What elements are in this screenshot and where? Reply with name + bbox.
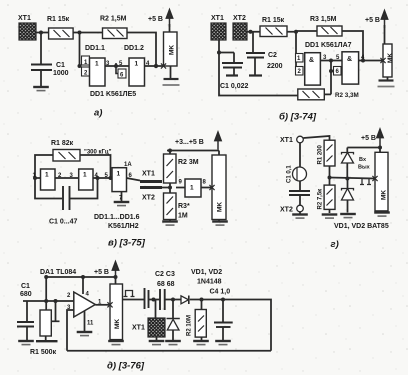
svg-text:R2 3,3M: R2 3,3M xyxy=(335,92,359,99)
svg-text:д) [3-76]: д) [3-76] xyxy=(107,361,145,372)
svg-text:VD1, VD2: VD1, VD2 xyxy=(191,269,222,276)
svg-text:XT1: XT1 xyxy=(211,15,224,22)
svg-text:2200: 2200 xyxy=(267,63,283,70)
svg-text:R1 15к: R1 15к xyxy=(47,16,70,23)
svg-text:1: 1 xyxy=(83,172,87,179)
svg-text:&: & xyxy=(347,56,352,63)
svg-text:DD1 K561ЛА7: DD1 K561ЛА7 xyxy=(305,42,352,49)
svg-text:XT1: XT1 xyxy=(132,325,145,332)
svg-text:+5 B: +5 B xyxy=(361,135,376,142)
svg-text:C1: C1 xyxy=(21,283,30,290)
svg-text:1000: 1000 xyxy=(53,70,69,77)
svg-text:68 68: 68 68 xyxy=(157,281,175,288)
svg-text:MK: MK xyxy=(387,53,394,63)
svg-text:DD1 K561ЛЕ5: DD1 K561ЛЕ5 xyxy=(90,91,136,98)
svg-text:+3...+5 B: +3...+5 B xyxy=(175,139,204,146)
svg-text:R3 1,5M: R3 1,5M xyxy=(310,16,337,23)
svg-text:1: 1 xyxy=(135,61,139,68)
svg-text:R2 3M: R2 3M xyxy=(178,159,199,166)
svg-text:C1: C1 xyxy=(56,62,65,69)
svg-text:R1 82к: R1 82к xyxy=(51,140,74,147)
svg-text:R2 1,5M: R2 1,5M xyxy=(100,16,127,23)
svg-text:C2 C3: C2 C3 xyxy=(155,271,175,278)
svg-text:б) [3-74]: б) [3-74] xyxy=(279,112,317,123)
svg-text:K561ЛН2: K561ЛН2 xyxy=(108,223,139,230)
svg-text:1M: 1M xyxy=(178,213,188,220)
svg-text:1: 1 xyxy=(45,172,49,179)
svg-text:DD1.2: DD1.2 xyxy=(124,45,144,52)
svg-text:VD1, VD2 BAT85: VD1, VD2 BAT85 xyxy=(334,223,389,230)
svg-text:C1 0,022: C1 0,022 xyxy=(220,83,249,90)
svg-text:&: & xyxy=(309,57,314,64)
svg-text:+5 B: +5 B xyxy=(365,17,380,24)
svg-text:+5 B: +5 B xyxy=(94,269,109,276)
svg-text:Bыx: Bыx xyxy=(358,165,371,171)
svg-text:MK: MK xyxy=(217,202,224,212)
svg-text:C4 1,0: C4 1,0 xyxy=(210,289,231,296)
svg-text:г): г) xyxy=(331,239,339,250)
svg-text:DA1 TL084: DA1 TL084 xyxy=(40,269,76,276)
svg-text:11: 11 xyxy=(87,321,94,327)
svg-text:+5 B: +5 B xyxy=(148,16,163,23)
svg-text:R1 15к: R1 15к xyxy=(262,17,285,24)
svg-text:R2 7,5к: R2 7,5к xyxy=(318,189,324,210)
svg-text:XT1: XT1 xyxy=(280,137,293,144)
svg-text:MK: MK xyxy=(169,45,176,55)
svg-text:R1 200: R1 200 xyxy=(318,144,324,164)
svg-text:1: 1 xyxy=(190,185,194,192)
svg-text:XT2: XT2 xyxy=(142,195,155,202)
svg-text:XT1: XT1 xyxy=(142,171,155,178)
svg-text:Bx: Bx xyxy=(359,157,367,163)
svg-text:DD1.1...DD1.6: DD1.1...DD1.6 xyxy=(94,214,140,221)
svg-text:R3*: R3* xyxy=(178,203,190,210)
svg-text:680: 680 xyxy=(20,291,32,298)
svg-text:1A: 1A xyxy=(124,162,132,168)
svg-text:MK: MK xyxy=(381,190,388,200)
svg-text:C1 0...47: C1 0...47 xyxy=(49,219,78,226)
svg-text:1: 1 xyxy=(95,61,99,68)
svg-text:а): а) xyxy=(94,108,102,119)
svg-text:MK: MK xyxy=(114,319,121,329)
svg-text:1: 1 xyxy=(117,171,121,178)
svg-text:DD1.1: DD1.1 xyxy=(85,45,105,52)
svg-text:XT1: XT1 xyxy=(18,15,31,22)
svg-text:1N4148: 1N4148 xyxy=(197,279,222,286)
svg-text:"300 кГц": "300 кГц" xyxy=(84,150,112,156)
svg-text:XT2: XT2 xyxy=(280,207,293,214)
svg-text:R2 10M: R2 10M xyxy=(187,315,193,336)
svg-text:R1 500к: R1 500к xyxy=(30,349,57,356)
svg-text:XT2: XT2 xyxy=(233,15,246,22)
svg-text:в) [3-75]: в) [3-75] xyxy=(108,238,146,249)
svg-text:C2: C2 xyxy=(268,52,277,59)
svg-text:C1 0,1: C1 0,1 xyxy=(287,165,293,183)
